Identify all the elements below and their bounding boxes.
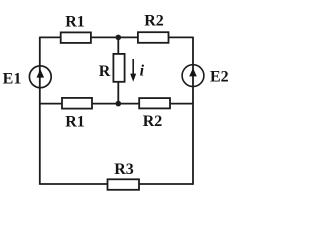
wire middle rail [40, 103, 193, 105]
svg-text:R2: R2 [144, 13, 164, 30]
svg-text:E1: E1 [3, 70, 22, 87]
svg-text:R2: R2 [143, 113, 163, 130]
resistor R2 top body [138, 32, 169, 43]
wire bottom rail [40, 183, 193, 185]
source E1 arrow [37, 69, 45, 77]
svg-text:R: R [99, 63, 111, 80]
resistor R3 body [108, 179, 140, 190]
svg-text:R3: R3 [114, 161, 134, 178]
svg-text:i: i [140, 63, 145, 80]
source E1 circle [29, 66, 51, 88]
resistor R2 middle body [139, 98, 170, 108]
wire right vertical [192, 37, 194, 185]
resistor R1 top body [61, 32, 91, 43]
svg-text:E2: E2 [210, 68, 229, 85]
wire center vertical branch [117, 37, 119, 103]
source E2 arrow [189, 68, 197, 76]
source E2 circle [182, 65, 204, 87]
resistor R center body [113, 54, 124, 82]
resistor R1 middle body [62, 98, 92, 109]
wire left vertical [39, 37, 41, 185]
current arrow i shaft [132, 59, 134, 75]
svg-text:R1: R1 [65, 14, 85, 31]
svg-text:R1: R1 [65, 114, 85, 131]
current arrow i head [130, 74, 136, 82]
node junction dot bottom [116, 101, 122, 107]
wire top (node A rail) [40, 36, 193, 38]
node junction dot top [116, 35, 122, 41]
